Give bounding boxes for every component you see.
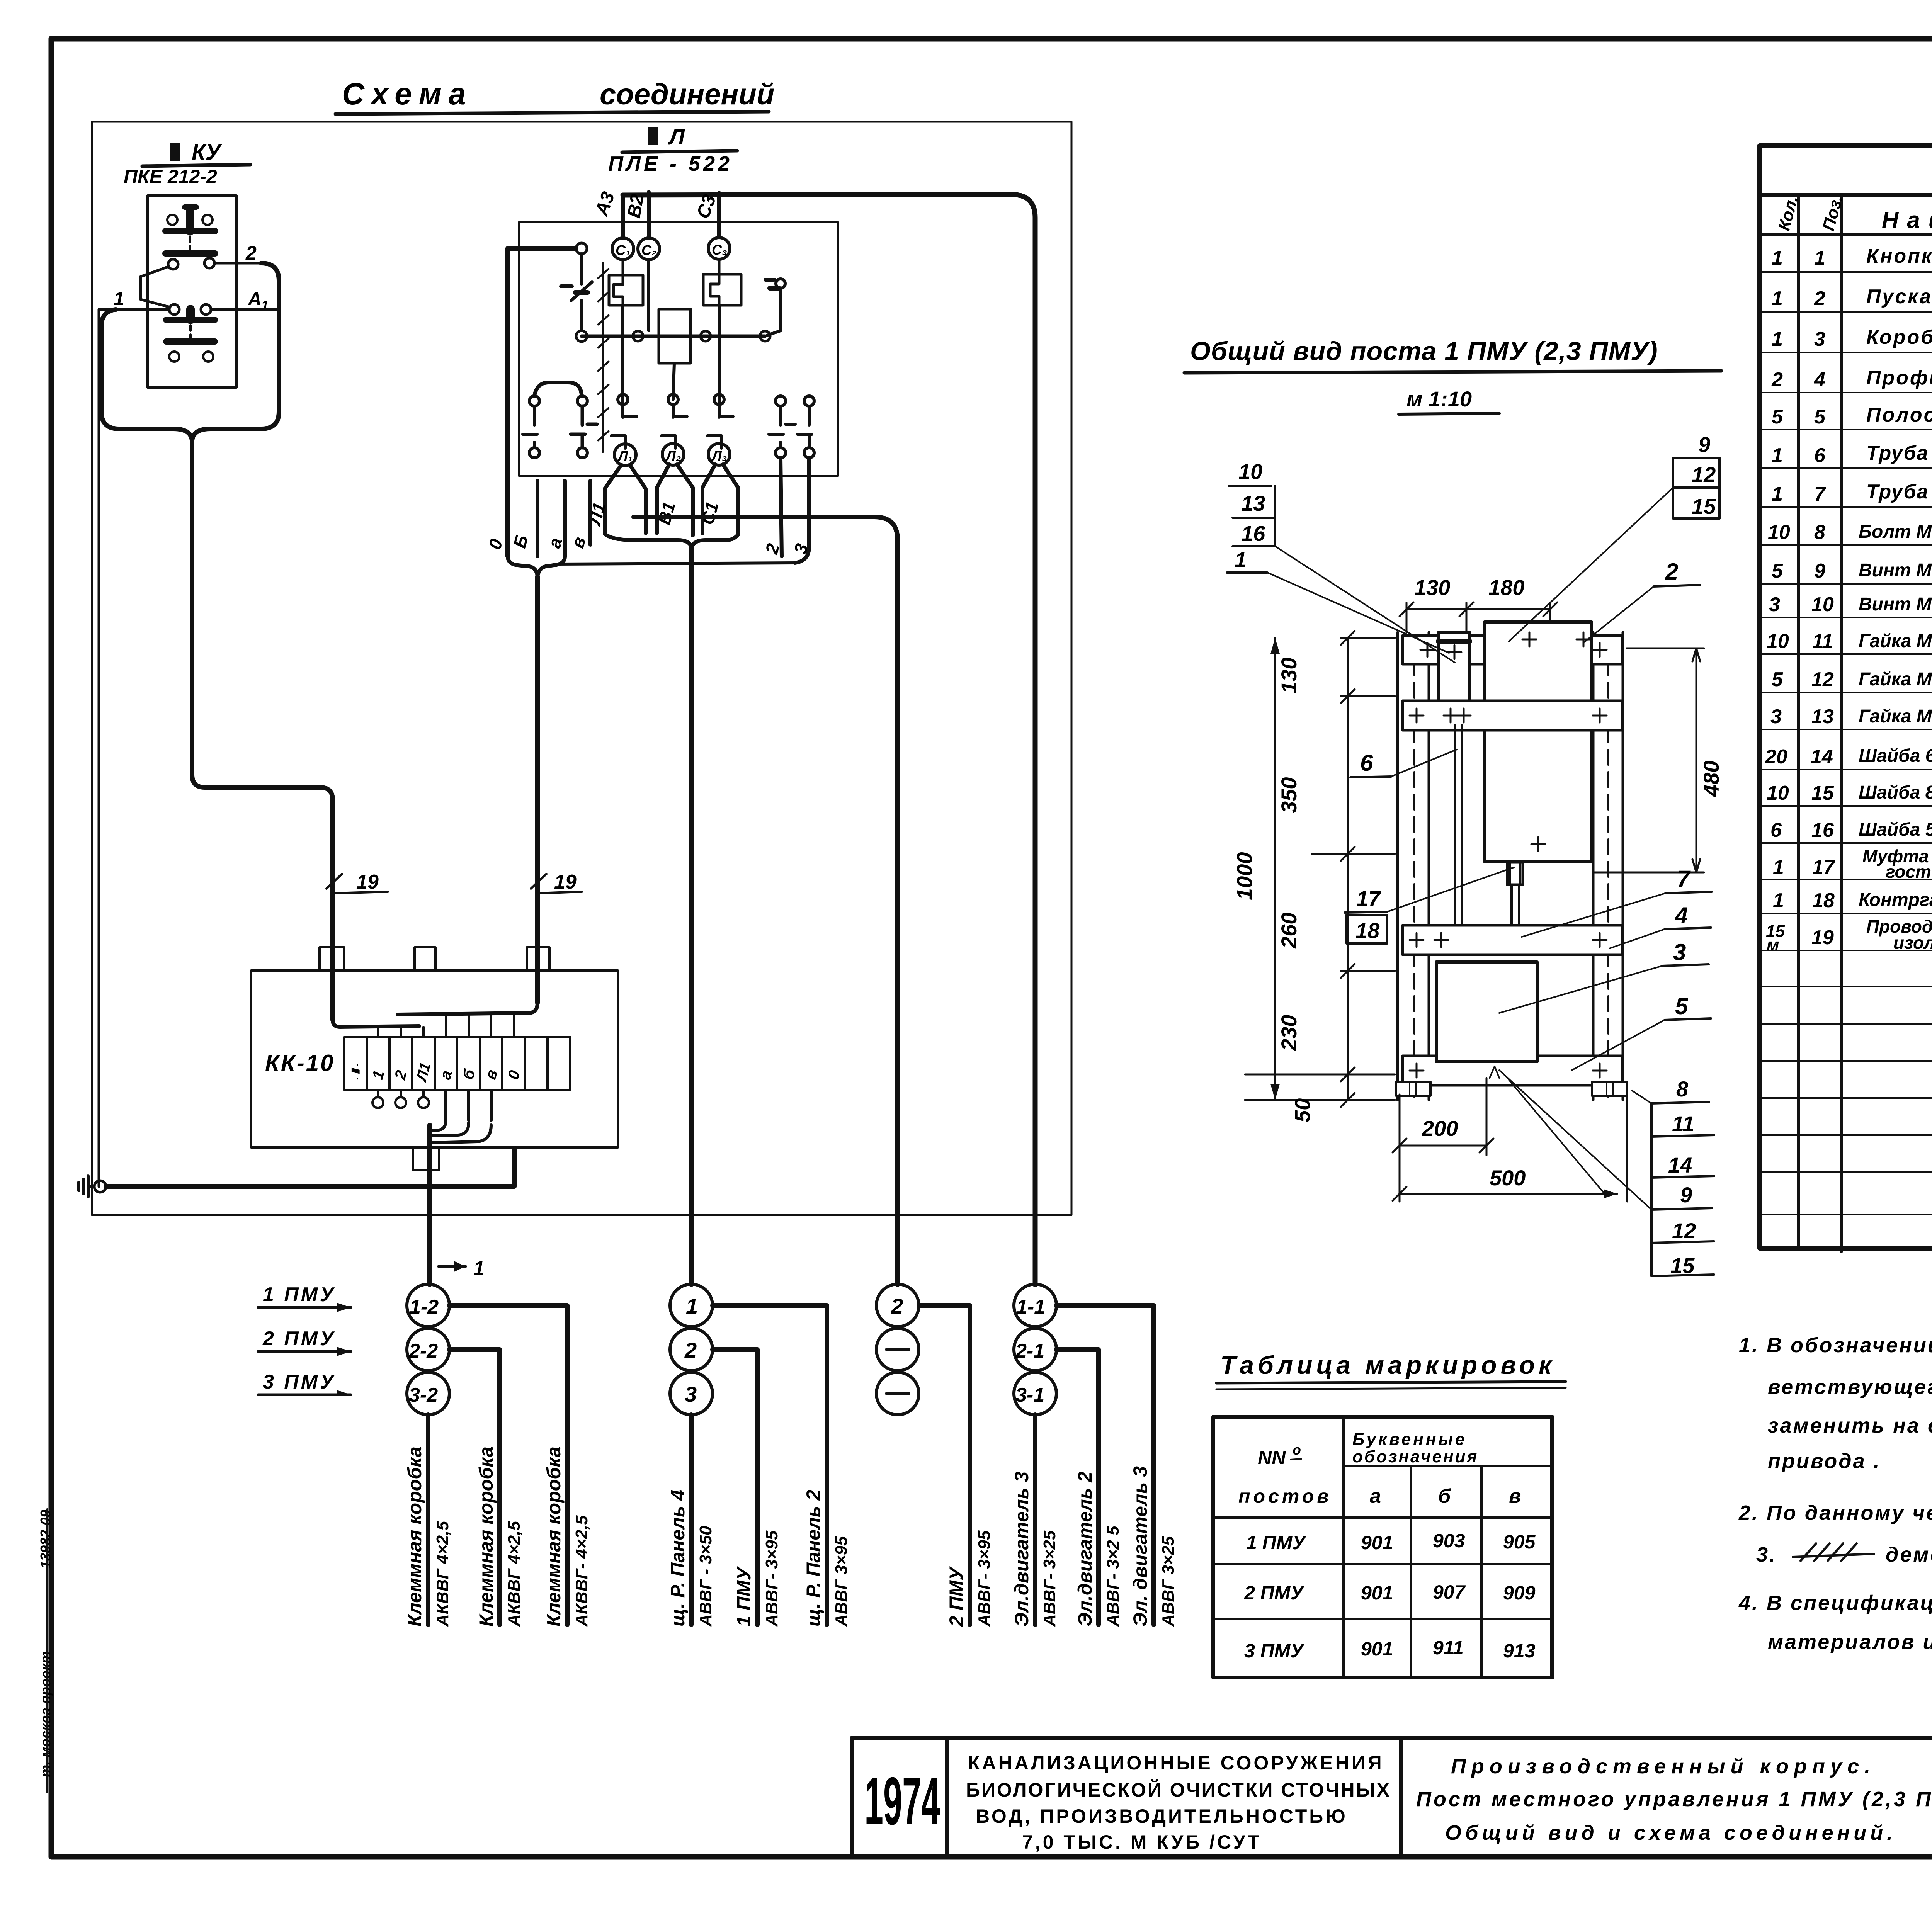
svg-text:в: в — [1509, 1485, 1521, 1508]
svg-text:12: 12 — [1692, 462, 1716, 487]
svg-text:12: 12 — [1811, 668, 1834, 691]
svg-text:С₃: С₃ — [712, 242, 727, 258]
svg-text:м 1:10: м 1:10 — [1406, 387, 1472, 411]
svg-text:7: 7 — [1814, 483, 1826, 505]
svg-text:260: 260 — [1277, 913, 1301, 949]
left profile rail — [1398, 632, 1429, 1100]
svg-text:16: 16 — [1241, 521, 1265, 546]
svg-text:10: 10 — [1767, 630, 1789, 653]
svg-text:Кнопка управления: Кнопка управления — [1866, 245, 1932, 267]
svg-text:привода .: привода . — [1768, 1450, 1881, 1473]
svg-text:17: 17 — [1812, 856, 1835, 879]
KK10 cable stem (right 19) — [535, 576, 540, 1003]
rows — [1244, 1530, 1536, 1662]
svg-text:8: 8 — [1676, 1077, 1689, 1101]
strip labels — [349, 1061, 524, 1084]
svg-text:ПЛЕ - 522: ПЛЕ - 522 — [608, 152, 733, 175]
callout 6 — [1350, 750, 1457, 777]
wire A1 to cable — [211, 308, 279, 311]
svg-text:5: 5 — [1675, 993, 1689, 1019]
KK10-SECTION — [79, 947, 618, 1285]
top dims 130 180 — [1400, 575, 1557, 632]
svg-text:o: o — [1293, 1442, 1301, 1458]
group 1 circles — [407, 1284, 449, 1415]
svg-text:Общий вид поста 1 ПМУ (2,3 ПМ: Общий вид поста 1 ПМУ (2,3 ПМУ) — [1190, 337, 1658, 366]
ground riser wire (left, to ground point) — [98, 309, 100, 1186]
svg-text:7,0 ТЫС. М КУБ /СУТ: 7,0 ТЫС. М КУБ /СУТ — [1022, 1831, 1262, 1853]
svg-text:Л: Л — [668, 124, 685, 150]
svg-text:ПКЕ 212-2: ПКЕ 212-2 — [124, 166, 217, 187]
cable bundle outline around KU — [101, 263, 279, 440]
wire from node 3-2 to cable label — [426, 1415, 430, 1625]
svg-text:9: 9 — [1680, 1183, 1692, 1207]
node 3-2 — [407, 1372, 449, 1415]
svg-text:1974: 1974 — [864, 1764, 940, 1839]
svg-text:АВВГ- 3×95: АВВГ- 3×95 — [975, 1530, 994, 1627]
svg-text:1 ПМУ: 1 ПМУ — [1246, 1532, 1307, 1553]
wire from node 3-1 to cable label — [1033, 1415, 1037, 1625]
svg-text:Гайка М5 ; гост 5915-70: Гайка М5 ; гост 5915-70 — [1859, 706, 1932, 727]
svg-text:6: 6 — [1360, 750, 1373, 776]
svg-text:гост 8957-59: гост 8957-59 — [1886, 862, 1932, 882]
svg-text:3: 3 — [685, 1382, 697, 1406]
rail feet — [1396, 1082, 1430, 1096]
svg-text:заменить на соответствующий: заменить на соответствующий номер электр… — [1768, 1414, 1932, 1437]
svg-text:Болт М6×20 гост 7798-70: Болт М6×20 гост 7798-70 — [1859, 522, 1932, 542]
svg-text:15: 15 — [1811, 782, 1834, 804]
svg-text:Клеммная коробка: Клеммная коробка — [475, 1446, 497, 1627]
tube item6 — [1455, 725, 1462, 925]
svg-text:материалов и провода дано: материалов и провода дано на 1 пост — [1768, 1630, 1932, 1654]
svg-text:С₂: С₂ — [641, 242, 657, 258]
svg-text:. ▮ .: . ▮ . — [349, 1063, 361, 1080]
svg-text:демонтировать.: демонтировать. — [1886, 1543, 1932, 1566]
svg-text:4. В спецификации количеств: 4. В спецификации количество аппаратов, — [1738, 1591, 1932, 1615]
svg-text:Гайка М8 ; гост 5915-70: Гайка М8 ; гост 5915-70 — [1859, 669, 1932, 690]
svg-text:2 ПМУ: 2 ПМУ — [946, 1566, 967, 1627]
svg-text:1. В обозначении аппарата и: 1. В обозначении аппарата и номера приво… — [1739, 1334, 1932, 1357]
MISC — [37, 1509, 1932, 1793]
SPEC-TABLE — [1760, 146, 1932, 1252]
svg-text:901: 901 — [1361, 1638, 1393, 1660]
top bumps — [320, 947, 344, 970]
svg-text:130: 130 — [1277, 658, 1301, 693]
node 1-2 — [407, 1284, 449, 1327]
svg-text:Контргайка. гост 8961-59: Контргайка. гост 8961-59 — [1859, 890, 1932, 910]
crossed-out mark in note 3 — [1793, 1543, 1874, 1561]
left aux pair lower with bridge — [523, 382, 597, 458]
svg-text:1: 1 — [1772, 444, 1783, 467]
svg-text:12: 12 — [1672, 1219, 1696, 1243]
svg-text:Шайба 5 гост 11371-68: Шайба 5 гост 11371-68 — [1859, 819, 1932, 840]
right aux contact upper — [765, 279, 785, 335]
svg-text:Профиль монтажный: Профиль монтажный — [1866, 367, 1932, 389]
svg-text:ветствующего номеру поста /: ветствующего номеру поста / в клеммнике … — [1768, 1375, 1932, 1399]
svg-text:6: 6 — [1770, 819, 1782, 841]
svg-text:щ. Р. Панель 2: щ. Р. Панель 2 — [803, 1490, 824, 1627]
svg-text:Шайба 8 гост 11371-68: Шайба 8 гост 11371-68 — [1859, 782, 1932, 803]
wire fans from lamps to cable cores — [605, 464, 738, 535]
svg-text:Полоса монтажная: Полоса монтажная — [1866, 404, 1932, 426]
svg-text:Таблица маркировок: Таблица маркировок — [1220, 1351, 1555, 1379]
right cable inside box feeding cells — [398, 1003, 537, 1015]
terminal box item3 — [1436, 962, 1537, 1062]
svg-text:В2: В2 — [624, 192, 648, 219]
svg-text:50: 50 — [1290, 1098, 1315, 1122]
svg-text:Клеммная коробка: Клеммная коробка — [543, 1446, 565, 1627]
callout ladder 8/11/14 9/12/15 bottom — [1499, 1070, 1714, 1278]
svg-text:Л₂: Л₂ — [665, 448, 681, 464]
PLE-SECTION — [485, 124, 1035, 1285]
wires from heaters down to contacts — [621, 305, 624, 417]
svg-text:20: 20 — [1765, 746, 1787, 768]
svg-text:5: 5 — [1772, 668, 1783, 691]
svg-text:1 ПМУ: 1 ПМУ — [263, 1283, 336, 1306]
svg-text:9: 9 — [1698, 432, 1710, 457]
top feeder bus to 1-1 riser — [623, 194, 1035, 1285]
table outer frame — [1760, 146, 1932, 1248]
svg-text:Шайба 6 гост 11371-68: Шайба 6 гост 11371-68 — [1859, 746, 1932, 766]
svg-text:7: 7 — [1677, 866, 1691, 892]
node 3 — [670, 1372, 713, 1415]
svg-text:5: 5 — [1772, 406, 1783, 428]
svg-text:3.: 3. — [1756, 1543, 1777, 1566]
svg-text:КУ: КУ — [192, 140, 222, 165]
svg-text:3-1: 3-1 — [1015, 1384, 1044, 1406]
svg-text:БИОЛОГИЧЕСКОЙ ОЧИСТКИ СТОЧНЫХ: БИОЛОГИЧЕСКОЙ ОЧИСТКИ СТОЧНЫХ — [966, 1779, 1391, 1801]
svg-text:1: 1 — [473, 1257, 485, 1280]
button box item1 — [1439, 632, 1469, 725]
svg-text:19: 19 — [554, 871, 577, 893]
KU-SECTION — [99, 140, 388, 1186]
svg-text:2-2: 2-2 — [408, 1340, 438, 1362]
svg-text:Л₁: Л₁ — [617, 448, 633, 464]
CIRCLE-GROUPS — [258, 1283, 1178, 1627]
wire from node 2-2 to cable label — [449, 1350, 500, 1625]
svg-text:Винт М5×16 гост 17473-72: Винт М5×16 гост 17473-72 — [1859, 594, 1932, 615]
pushbutton contact (top, NO) — [165, 207, 215, 253]
right profile rail — [1593, 632, 1623, 1100]
group 2 circles — [670, 1284, 713, 1415]
svg-text:2. По данному чертежу изго: 2. По данному чертежу изготовить 3 поста — [1738, 1501, 1932, 1525]
node 1-1 — [1014, 1284, 1056, 1327]
svg-text:901: 901 — [1361, 1532, 1393, 1553]
overall 1000 dim — [1232, 638, 1280, 1100]
svg-text:2: 2 — [891, 1294, 903, 1318]
svg-text:Буквенные: Буквенные — [1352, 1430, 1467, 1449]
0-core wire: from junction left and down — [508, 248, 576, 556]
svg-text:16: 16 — [1811, 819, 1834, 841]
svg-text:щ. Р. Панель 4: щ. Р. Панель 4 — [667, 1490, 689, 1627]
svg-text:Клеммная коробка: Клеммная коробка — [404, 1446, 425, 1627]
pigtails below strip — [372, 1090, 429, 1108]
svg-text:3 ПМУ: 3 ПМУ — [263, 1371, 336, 1393]
changeover contact with arm — [141, 258, 214, 314]
svg-text:8: 8 — [1814, 521, 1825, 544]
svg-text:180: 180 — [1488, 575, 1524, 600]
svg-text:10: 10 — [1238, 459, 1262, 484]
svg-text:соединений: соединений — [600, 78, 774, 111]
svg-text:NN: NN — [1258, 1447, 1286, 1468]
svg-text:1-2: 1-2 — [410, 1296, 439, 1318]
callout 9/12/15 top — [1509, 432, 1719, 641]
svg-text:2 ПМУ: 2 ПМУ — [1244, 1582, 1305, 1604]
svg-text:6: 6 — [1814, 444, 1826, 467]
svg-text:изолированный: изолированный — [1893, 933, 1932, 953]
svg-text:913: 913 — [1503, 1640, 1536, 1662]
svg-text:1: 1 — [1772, 328, 1783, 350]
mechanical link hatline — [598, 263, 609, 452]
svg-text:Схема: Схема — [342, 76, 473, 111]
callout 17/18 — [1345, 867, 1514, 943]
svg-text:11: 11 — [1672, 1112, 1694, 1136]
node 2-1 — [1014, 1328, 1056, 1371]
svg-text:1: 1 — [1235, 547, 1247, 572]
svg-text:1000: 1000 — [1232, 852, 1257, 900]
svg-text:5: 5 — [1772, 560, 1783, 582]
svg-text:130: 130 — [1414, 575, 1450, 600]
wire from terminal 1 to ground riser — [99, 308, 169, 311]
PMU arrows — [258, 1283, 351, 1395]
top mounting strip — [1403, 636, 1622, 664]
svg-text:Эл. двигатель 3: Эл. двигатель 3 — [1129, 1466, 1151, 1627]
svg-text:2: 2 — [684, 1338, 697, 1362]
bottom cable stem to group-1 — [427, 1125, 432, 1285]
svg-text:т. москва проект: т. москва проект — [37, 1651, 53, 1777]
svg-text:19: 19 — [356, 871, 379, 893]
starter box item2 — [1485, 622, 1592, 862]
svg-text:909: 909 — [1503, 1582, 1536, 1604]
svg-text:1: 1 — [1773, 856, 1784, 879]
svg-text:Производственный корпус.: Производственный корпус. — [1451, 1755, 1876, 1778]
svg-text:Гайка М6 ; гост 5915-70: Гайка М6 ; гост 5915-70 — [1859, 631, 1932, 651]
left cable inside box feeding cells — [333, 1020, 419, 1027]
row texts — [1765, 245, 1932, 954]
middle horizontal link bus — [582, 335, 765, 338]
svg-text:АКВВГ 4×2,5: АКВВГ 4×2,5 — [433, 1521, 452, 1627]
wires а б в to bottom cable — [446, 1090, 491, 1120]
strip B — [1403, 701, 1622, 730]
svg-text:10: 10 — [1811, 593, 1834, 616]
svg-text:Винт М8×16 гост 17473-72: Винт М8×16 гост 17473-72 — [1859, 560, 1932, 581]
tube item7 with fitting — [1512, 885, 1519, 925]
svg-text:3: 3 — [1770, 705, 1782, 728]
pushbutton station 1КУ (ПКЕ 212-2) body — [148, 195, 236, 388]
svg-text:1: 1 — [1772, 483, 1783, 505]
terminal stubs A3 B2 C3 — [621, 195, 625, 238]
lamp circles L1 L2 L3 — [614, 444, 730, 466]
collector to KK10 cable — [556, 563, 796, 564]
svg-text:АВВГ - 3×50: АВВГ - 3×50 — [696, 1526, 715, 1627]
svg-text:10: 10 — [1767, 782, 1789, 804]
cable bracket to group-2 riser — [605, 534, 738, 547]
svg-text:13: 13 — [1241, 491, 1265, 515]
strip C — [1403, 925, 1622, 955]
cable mark 19 (left) — [327, 871, 388, 893]
wire 2 to cable right edge — [214, 262, 261, 265]
svg-text:9: 9 — [1814, 560, 1825, 582]
svg-text:АВВГ 3×25: АВВГ 3×25 — [1159, 1536, 1178, 1627]
svg-text:4: 4 — [1675, 903, 1688, 928]
svg-text:230: 230 — [1277, 1015, 1301, 1051]
svg-text:1: 1 — [686, 1294, 698, 1318]
wire number 1 with arrow — [439, 1265, 466, 1268]
svg-text:1: 1 — [114, 288, 124, 309]
wire from node 2 to cable label — [713, 1350, 757, 1625]
callout 2 — [1584, 559, 1700, 642]
svg-text:Труба: Труба — [1866, 442, 1929, 464]
svg-text:Коробка клеммная: Коробка клеммная — [1866, 326, 1932, 348]
svg-text:1: 1 — [1772, 287, 1783, 310]
pushbutton contact (bottom) — [166, 309, 215, 362]
svg-text:КАНАЛИЗАЦИОННЫЕ СООРУЖЕНИЯ: КАНАЛИЗАЦИОННЫЕ СООРУЖЕНИЯ — [968, 1752, 1384, 1774]
svg-text:15: 15 — [1692, 494, 1716, 518]
svg-text:350: 350 — [1277, 777, 1301, 813]
svg-text:Наименование: Наименование — [1882, 207, 1932, 233]
node 1 — [670, 1284, 713, 1327]
heater element 2 — [703, 259, 741, 305]
svg-text:ВОД, ПРОИЗВОДИТЕЛЬНОСТЬЮ: ВОД, ПРОИЗВОДИТЕЛЬНОСТЬЮ — [976, 1805, 1348, 1827]
ground node — [79, 1176, 106, 1197]
svg-text:13982-09: 13982-09 — [37, 1510, 53, 1569]
SCHEMA-TITLE — [335, 76, 774, 114]
junction circle at left (from 0 core) — [576, 243, 587, 254]
strip D bottom — [1403, 1056, 1622, 1085]
group 4 circles — [1014, 1284, 1056, 1415]
callout 7 4 3 5 — [1499, 866, 1712, 1070]
svg-text:Л₃: Л₃ — [711, 448, 727, 464]
svg-text:постов: постов — [1238, 1485, 1332, 1507]
header texts — [1774, 193, 1932, 236]
wire from node 1-2 to cable label — [449, 1305, 567, 1625]
label 1 КУ / ПКЕ 212-2 — [124, 140, 250, 187]
svg-text:17: 17 — [1356, 886, 1381, 911]
svg-text:2: 2 — [1771, 369, 1783, 391]
TITLE-BLOCK — [852, 1738, 1932, 1889]
svg-text:АКВВГ 4×2,5: АКВВГ 4×2,5 — [505, 1521, 524, 1627]
svg-text:903: 903 — [1433, 1530, 1465, 1552]
svg-text:18: 18 — [1812, 889, 1835, 912]
svg-text:1: 1 — [1773, 889, 1784, 912]
main contacts row (three poles) — [611, 394, 733, 448]
svg-text:480: 480 — [1699, 761, 1723, 797]
svg-text:3 ПМУ: 3 ПМУ — [1244, 1640, 1305, 1662]
terminal circles C1 C2 C3 — [612, 238, 730, 260]
svg-text:АВВГ- 3×95: АВВГ- 3×95 — [762, 1530, 781, 1627]
svg-text:а: а — [1370, 1485, 1381, 1508]
svg-text:1 ПМУ: 1 ПМУ — [733, 1566, 755, 1627]
terminal box КК-10 body — [251, 970, 618, 1147]
svg-text:200: 200 — [1422, 1116, 1458, 1140]
svg-text:Пускатель магнитный: Пускатель магнитный — [1866, 286, 1932, 308]
group 3 circles — [876, 1284, 919, 1415]
svg-text:1: 1 — [1814, 247, 1825, 269]
svg-text:1: 1 — [1772, 247, 1783, 269]
magnetic starter 1Л (ПЛЕ-522) body — [519, 222, 838, 476]
svg-text:4: 4 — [1814, 369, 1825, 391]
right aux pair lower — [769, 396, 814, 458]
MARK-TABLE — [1213, 1351, 1566, 1678]
label 1 Л / ПЛЕ-522 — [608, 124, 737, 175]
svg-text:м: м — [1767, 935, 1779, 954]
terminal strip — [344, 1037, 570, 1090]
rotated destination labels — [404, 1446, 1178, 1627]
node 2-2 — [407, 1328, 449, 1371]
svg-text:Пост местного управления: Пост местного управления 1 ПМУ (2,3 ПМУ)… — [1416, 1788, 1932, 1811]
group-2 riser — [691, 547, 692, 1285]
svg-text:3: 3 — [1769, 593, 1780, 616]
coil box — [659, 309, 690, 363]
bottom bump — [413, 1147, 439, 1170]
right 480 dim — [1594, 648, 1723, 872]
svg-text:обозначения: обозначения — [1352, 1447, 1478, 1466]
svg-text:Труба: Труба — [1866, 481, 1929, 503]
svg-text:500: 500 — [1490, 1166, 1526, 1190]
wire from node 2 (group 3) to cable label — [919, 1305, 970, 1625]
node 2 (group 3) — [876, 1284, 919, 1327]
wire from node 1 to cable label — [713, 1305, 827, 1625]
svg-text:Эл.двигатель 3: Эл.двигатель 3 — [1011, 1472, 1032, 1627]
cores 2,3 from right contacts down to collector — [781, 458, 782, 556]
svg-text:б: б — [1438, 1485, 1451, 1508]
svg-text:14: 14 — [1811, 746, 1833, 768]
svg-text:13: 13 — [1811, 705, 1834, 728]
svg-text:3: 3 — [1673, 939, 1686, 965]
header — [1238, 1430, 1521, 1508]
reserved node — — [876, 1372, 919, 1415]
cable stem down from KU — [192, 440, 333, 1020]
svg-text:АВВГ 3×95: АВВГ 3×95 — [832, 1536, 851, 1627]
svg-text:10: 10 — [1768, 521, 1790, 544]
svg-text:2: 2 — [245, 242, 257, 264]
svg-text:С₁: С₁ — [616, 242, 631, 258]
NOTES — [1738, 1334, 1932, 1654]
callout 10/13/16/1 — [1227, 459, 1455, 663]
svg-text:14: 14 — [1668, 1153, 1692, 1177]
svg-text:901: 901 — [1361, 1582, 1393, 1604]
left margin rotated stamps — [37, 1510, 53, 1777]
reserved node — — [876, 1328, 919, 1371]
svg-text:3: 3 — [1814, 328, 1825, 350]
wire from node 3 to cable label — [689, 1415, 694, 1625]
left aux contact upper — [561, 254, 592, 331]
svg-text:Общий вид и схема соедине: Общий вид и схема соединений. — [1445, 1821, 1896, 1844]
svg-text:2-1: 2-1 — [1015, 1340, 1044, 1362]
wire from node 1-1 to cable label — [1056, 1305, 1154, 1625]
svg-text:1-1: 1-1 — [1016, 1296, 1045, 1318]
svg-text:907: 907 — [1433, 1581, 1466, 1603]
cable mark 19 (right) — [531, 871, 582, 893]
svg-text:2 ПМУ: 2 ПМУ — [262, 1327, 336, 1350]
svg-text:АКВВГ- 4×2,5: АКВВГ- 4×2,5 — [572, 1515, 591, 1627]
ground bus to box — [106, 1148, 514, 1186]
column lines — [1797, 195, 1800, 1248]
inner drawing frame (schema area) — [92, 122, 1071, 1215]
node 2 — [670, 1328, 713, 1371]
svg-text:Эл.двигатель 2: Эл.двигатель 2 — [1074, 1472, 1096, 1627]
wire to group-3 riser — [634, 517, 898, 1285]
svg-text:905: 905 — [1503, 1531, 1536, 1553]
grid — [1213, 1417, 1552, 1678]
svg-text:АВВГ- 3×25: АВВГ- 3×25 — [1040, 1530, 1059, 1627]
wire from node 2-1 to cable label — [1056, 1350, 1099, 1625]
bottom dims 200 500 — [1393, 1078, 1627, 1202]
GENERAL-VIEW — [1184, 337, 1723, 1278]
left dim chain — [1245, 631, 1395, 1122]
svg-text:3-2: 3-2 — [409, 1384, 438, 1406]
svg-text:2: 2 — [1665, 559, 1678, 585]
svg-text:КК-10: КК-10 — [265, 1050, 335, 1076]
